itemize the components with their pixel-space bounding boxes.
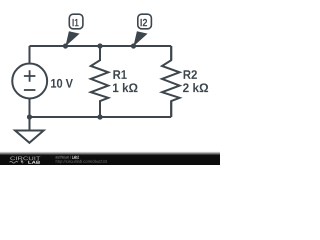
probe I1 text — [73, 19, 79, 26]
wire: top horizontal — [30, 45, 172, 47]
node: I2 junction — [131, 43, 136, 48]
node: I1 junction — [63, 43, 68, 48]
watermark text line 1 — [56, 156, 71, 159]
watermark logo LAB — [28, 161, 40, 164]
value 1 kOhm — [113, 83, 138, 92]
voltage source V1 — [12, 64, 47, 99]
label R1 — [113, 70, 126, 79]
value label 10 V — [51, 79, 73, 88]
probe I2 pointer — [133, 31, 147, 46]
wire: left vertical (V1 bottom to bottom wire) — [29, 98, 31, 117]
probe I1 pointer — [65, 31, 79, 46]
resistor R1 — [91, 46, 109, 117]
probe I2 text — [141, 19, 148, 27]
value 2 kOhm — [183, 83, 208, 92]
node: R1 bottom junction — [97, 114, 102, 119]
wire: R2 top lead — [170, 46, 172, 60]
resistor R2 — [162, 46, 180, 117]
node: R1 top junction — [97, 43, 102, 48]
watermark bar — [0, 152, 220, 166]
wire: left vertical (top wire to V1 top) — [29, 46, 31, 64]
wire: bottom horizontal — [30, 116, 172, 118]
ground — [15, 117, 43, 143]
label R2 — [184, 70, 197, 79]
watermark text line 2 — [56, 160, 107, 164]
probe I2 box — [138, 14, 152, 29]
watermark logo squiggle — [10, 161, 18, 163]
watermark logo CIRCUIT — [10, 157, 40, 161]
wire: R2 bottom lead — [170, 101, 172, 117]
probe I1 box — [69, 14, 83, 29]
watermark logo lightning — [21, 161, 25, 164]
node: ground junction — [27, 114, 32, 119]
